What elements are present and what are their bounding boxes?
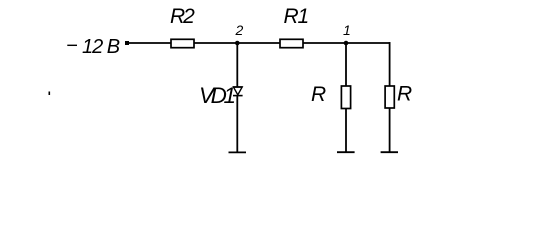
svg-text:2: 2 — [235, 22, 244, 38]
svg-text:VD1: VD1 — [199, 83, 234, 108]
wire: diode VD1 to ground — [236, 96, 238, 153]
wire: R1 to right corner (through node 1) — [303, 42, 390, 44]
wire: R2 to R1 (through node 2) — [194, 42, 280, 44]
resistor R left (body, vertical) — [341, 86, 350, 109]
terminal dot (source) — [125, 41, 129, 45]
svg-text:1: 1 — [343, 22, 351, 38]
wire: top-right corner down to resistor R (right) — [389, 42, 391, 86]
node 1 junction dot — [344, 41, 349, 46]
diode VD1 (zener, pointing down) — [233, 87, 243, 96]
wire: resistor R (right) to ground — [389, 108, 391, 152]
wire: resistor R (left) to ground — [345, 109, 347, 153]
wire: node 2 down to diode VD1 — [236, 43, 238, 87]
resistor R1 (body) — [280, 39, 303, 47]
ground (under left R) — [337, 151, 355, 153]
svg-text:R: R — [397, 83, 412, 106]
resistor R2 (body) — [171, 39, 194, 47]
node 2 junction dot — [235, 41, 240, 46]
wire: node 1 down to resistor R (left) — [345, 43, 347, 86]
svg-text:R2: R2 — [170, 5, 195, 28]
label -12 В (source voltage) — [66, 35, 120, 58]
svg-text:−: − — [66, 35, 77, 57]
ground (under VD1) — [229, 151, 247, 153]
svg-text:12 В: 12 В — [82, 36, 120, 58]
ground (under right R) — [381, 151, 398, 153]
resistor R right (body, vertical) — [385, 86, 394, 108]
stray ink speck — [49, 92, 51, 96]
svg-text:R: R — [311, 83, 326, 106]
svg-text:R1: R1 — [284, 5, 308, 28]
wire: source terminal to R2 — [128, 42, 171, 44]
